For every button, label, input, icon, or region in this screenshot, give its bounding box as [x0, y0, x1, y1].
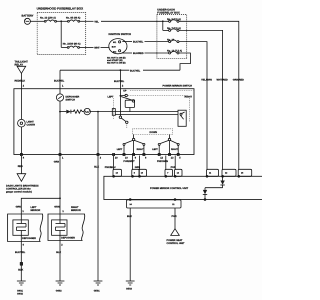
ground G401 G402: [17, 281, 26, 295]
svg-text:BLK/YEL: BLK/YEL: [130, 69, 141, 72]
wire fuse26 out to right column A: [179, 42, 207, 170]
wire diode link: [205, 187, 223, 189]
wire fuse7 out to right column B: [179, 30, 223, 169]
svg-text:DOWN: DOWN: [150, 131, 158, 134]
wire GRN bus into right mirror: [59, 198, 61, 214]
connector terminal circles on control unit rows: [113, 175, 240, 200]
svg-text:GRN: GRN: [54, 205, 60, 208]
power mirror control unit box: [104, 176, 264, 199]
left mirror box: [8, 214, 43, 242]
mirror switch common bus 2: [115, 114, 178, 116]
svg-text:LEFT: LEFT: [108, 95, 115, 98]
svg-text:WHT/RED: WHT/RED: [217, 78, 228, 81]
svg-text:PUR: PUR: [172, 215, 177, 218]
wire right mirror to ground: [59, 241, 61, 282]
wire BLK down to pin 3: [97, 112, 99, 155]
wire fuse10 out down to BLK/YEL row: [179, 53, 190, 70]
battery B1: [22, 14, 34, 24]
svg-text:GRN: GRN: [16, 205, 22, 208]
underhood fuse/relay box: [37, 7, 86, 55]
right mirror box: [48, 214, 85, 241]
svg-text:G503: G503: [126, 287, 133, 290]
svg-text:No. 85 (40 A): No. 85 (40 A): [66, 17, 81, 20]
light control rheostat inside switch: [18, 89, 36, 155]
svg-text:gauge control module): gauge control module): [6, 191, 32, 194]
svg-text:G402: G402: [17, 292, 24, 295]
right mirror defogger element: [52, 214, 76, 241]
svg-text:BLK/YEL: BLK/YEL: [114, 80, 125, 83]
fuse No.85 (40 A): [66, 17, 81, 23]
svg-text:LEFT: LEFT: [117, 148, 123, 151]
svg-text:POWER MIRROR SWITCH: POWER MIRROR SWITCH: [163, 85, 193, 88]
wire BLK/YEL down to mirror switch pin 2: [119, 70, 121, 95]
mirror switch right contact set: [178, 110, 186, 126]
svg-text:RIGHT: RIGHT: [137, 148, 144, 151]
left actuator pivot contact: [125, 135, 144, 155]
svg-text:SWITCH: SWITCH: [66, 98, 76, 101]
wire battery to underhood box: [30, 20, 44, 22]
wire fuse23 to junction: [57, 20, 68, 22]
fuse No.23 (100 A): [40, 17, 56, 23]
wire BLK pin3 down to ground: [97, 156, 99, 282]
svg-text:BLK: BLK: [127, 215, 132, 218]
svg-text:PUR/WHT: PUR/WHT: [123, 160, 135, 163]
fuse No.23/30 (80 A): [63, 42, 81, 48]
wire RED pin4 to dash lights controller: [17, 156, 26, 182]
wire junction down to fuse 23/30: [60, 21, 62, 47]
svg-text:BLU/RED: BLU/RED: [133, 52, 144, 55]
svg-text:MIRROR: MIRROR: [31, 209, 41, 212]
switch bottom pins: [20, 154, 179, 156]
wire PNK/GRN pin12 to control unit: [165, 156, 167, 170]
power mirror switch box: [14, 85, 194, 155]
wire fuse8 out to right column C: [179, 21, 239, 169]
svg-text:IG1 HOT in ON (II): IG1 HOT in ON (II): [107, 56, 126, 59]
svg-text:DEFOGGER: DEFOGGER: [61, 237, 75, 240]
svg-text:BLK/YEL: BLK/YEL: [15, 251, 26, 254]
svg-text:MIRROR: MIRROR: [71, 209, 81, 212]
fuse No.7 (7.5 A): [167, 27, 181, 31]
wire bulb to switch common bus: [90, 111, 178, 113]
dash lights brightness controller label: [6, 185, 39, 194]
wire PUR pin5 to control unit: [174, 156, 176, 170]
wire PUR control unit to power seat control unit: [174, 208, 176, 229]
svg-text:G501: G501: [94, 289, 101, 292]
svg-text:LEFT: LEFT: [152, 148, 158, 151]
svg-text:G402: G402: [56, 289, 63, 292]
svg-text:RIGHT: RIGHT: [171, 148, 178, 151]
control unit bottom connector pins: [127, 200, 182, 208]
wire left mirror to ground: [20, 242, 22, 282]
wire BLK control unit to ground: [129, 208, 131, 281]
svg-text:POWER MIRROR CONTROL UNIT: POWER MIRROR CONTROL UNIT: [150, 187, 189, 190]
svg-text:RELAY: RELAY: [15, 63, 24, 66]
ignition note: [107, 56, 126, 64]
fuse No.26: [167, 38, 179, 42]
svg-text:RED: RED: [18, 165, 23, 168]
svg-text:DEFOGGER: DEFOGGER: [22, 237, 36, 240]
svg-text:BLK: BLK: [56, 251, 61, 254]
junction node defogger out: [59, 111, 61, 113]
svg-text:RED/BLK: RED/BLK: [15, 79, 26, 82]
diode D1 illumination: [60, 110, 71, 114]
mirror feed bus GRN: [21, 198, 60, 214]
under-dash fuse/relay box: [157, 8, 187, 58]
wire PNK/BLU pin19 to control unit: [113, 156, 115, 170]
power seat control unit connector: [167, 229, 186, 245]
svg-text:GRN: GRN: [54, 160, 60, 163]
wire PUR/WHT pin10 to control unit: [132, 156, 134, 170]
ground G501 BLK column: [94, 281, 103, 292]
wire BLK/YEL down to defogger switch: [59, 70, 61, 94]
stationary contacts row: [123, 143, 179, 154]
ground G402 right mirror: [56, 281, 65, 292]
DOWN selector dashed box: [132, 129, 172, 135]
wire BLK/YEL horizontal row: [60, 69, 129, 71]
junction node: [60, 20, 62, 22]
mirror switch lower-left contact set: [119, 96, 128, 129]
svg-text:UNDERHOOD FUSE/RELAY BOX: UNDERHOOD FUSE/RELAY BOX: [37, 7, 84, 11]
svg-text:YEL/GRN: YEL/GRN: [201, 78, 212, 81]
control unit top connector pins: [113, 169, 252, 176]
ground G503: [126, 281, 135, 290]
svg-text:PNK/BLU: PNK/BLU: [105, 166, 116, 169]
diode D2 in control unit: [220, 176, 224, 187]
wire YEL fuse85 to under-dash box: [80, 20, 94, 22]
inline connector C1: [20, 262, 23, 266]
junction node on BLK/YEL row: [120, 69, 122, 71]
wire GRN pin1 down to mirror bus: [59, 156, 61, 199]
resistor R1 illumination: [71, 110, 84, 113]
svg-text:BATTERY: BATTERY: [22, 14, 34, 17]
svg-text:IGNITION SWITCH: IGNITION SWITCH: [109, 33, 132, 36]
svg-text:CONTR: CONTR: [27, 123, 36, 126]
svg-text:BLK: BLK: [18, 268, 23, 271]
svg-text:BLK: BLK: [94, 166, 99, 169]
ignition switch SW1: [109, 33, 132, 54]
svg-text:PUR: PUR: [171, 166, 176, 169]
svg-text:and START (III): and START (III): [107, 59, 123, 62]
left mirror defogger element: [13, 214, 36, 242]
defogger switch inside switch assembly: [56, 94, 79, 112]
diode D3 in control unit: [203, 188, 207, 200]
svg-text:PNK/GRN: PNK/GRN: [157, 160, 168, 163]
svg-text:CONTROL UNIT: CONTROL UNIT: [167, 242, 186, 245]
wire defogger out down to pin GRN: [59, 112, 61, 155]
svg-text:IG2 HOT in ON (II): IG2 HOT in ON (II): [107, 62, 126, 65]
right actuator pivot contact: [160, 135, 177, 155]
junction node bus: [59, 197, 61, 199]
svg-text:GRN: GRN: [135, 166, 141, 169]
wire WHT fuse to ignition switch: [80, 46, 94, 48]
wire BLK/YEL IG1 to under-dash box: [122, 41, 132, 43]
switch pin numbers: [23, 157, 182, 160]
svg-text:YEL: YEL: [94, 20, 99, 23]
svg-text:No. 23 (100 A): No. 23 (100 A): [40, 17, 56, 20]
junction node BLK branch: [97, 111, 99, 113]
fuse No.10 (7.5 A): [167, 50, 182, 54]
svg-text:FUSE/RELAY BOX: FUSE/RELAY BOX: [157, 11, 180, 14]
svg-text:GRN/RED: GRN/RED: [233, 78, 244, 81]
LEFT RIGHT LEFT RIGHT labels: [117, 148, 179, 151]
junction node under-dash feed: [162, 20, 164, 22]
fuse No.8 (7.5 A): [167, 18, 181, 22]
svg-text:WHT: WHT: [94, 47, 100, 50]
svg-text:BLK/YEL: BLK/YEL: [133, 41, 144, 44]
svg-text:BLK/YEL: BLK/YEL: [54, 80, 65, 83]
wire RED/BLK relay to switch pin 2: [20, 73, 22, 88]
wire GRN pin6 to control unit: [139, 156, 141, 170]
svg-text:UP: UP: [123, 90, 127, 93]
svg-text:No. 23/30 (80 A): No. 23/30 (80 A): [63, 42, 81, 45]
wire BLU/RED IG2 to under-dash box: [122, 52, 132, 54]
wire feed to fuse8 and fuse7: [162, 21, 164, 30]
illumination bulb L1: [84, 108, 90, 114]
mirror switch upper contact set: [120, 94, 189, 111]
taillight relay connector: [15, 60, 29, 73]
